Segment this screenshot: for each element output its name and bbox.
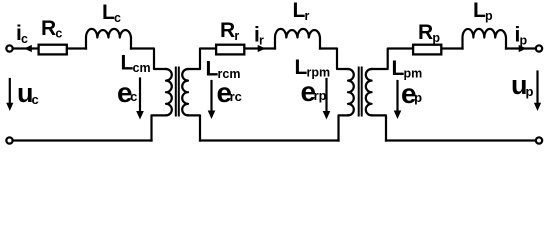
arrowhead i_c (left) — [24, 45, 32, 52]
core T1 — [175, 68, 177, 116]
svg-text:Lr: Lr — [293, 0, 310, 23]
inductor L_p — [463, 29, 507, 49]
svg-text:ec: ec — [117, 77, 137, 108]
inductor L_c — [86, 29, 131, 49]
winding L_rcm — [182, 69, 188, 115]
arrowhead u_p — [534, 103, 541, 111]
terminal bottom-left — [6, 137, 12, 143]
voltage arrow e_rp — [325, 79, 327, 111]
resistor R_p — [413, 45, 441, 55]
svg-text:up: up — [511, 70, 534, 100]
winding L_cm — [166, 69, 172, 115]
voltage arrow e_rc — [210, 81, 212, 111]
resistor R_r — [216, 45, 244, 55]
winding L_rpm — [348, 69, 354, 115]
core T2 — [358, 68, 360, 116]
voltage arrow e_c — [139, 79, 141, 112]
wire L_rpm bottom to rail — [339, 115, 349, 140]
wire L_cm bottom to rail — [152, 115, 167, 140]
svg-text:Lcm: Lcm — [121, 51, 151, 75]
arrowhead i_p (right) — [519, 45, 527, 52]
terminal bottom-right — [536, 137, 542, 143]
terminal top-left — [6, 45, 12, 51]
svg-text:Lc: Lc — [102, 1, 121, 25]
bottom rail loop1 — [14, 139, 152, 141]
svg-text:Rp: Rp — [418, 21, 440, 45]
wire L_rcm bottom to rail — [188, 115, 200, 140]
svg-text:ep: ep — [401, 78, 422, 109]
resistor R_c — [39, 45, 67, 55]
svg-text:ir: ir — [254, 24, 264, 48]
wire L_r to T2 riser — [320, 49, 348, 70]
arrowhead e_rp — [323, 111, 331, 120]
svg-text:uc: uc — [17, 78, 39, 108]
wire L_rcm top to rail — [188, 49, 215, 70]
arrowhead e_c — [136, 111, 144, 120]
svg-text:ic: ic — [16, 22, 28, 46]
wire L_pm bottom to rail — [372, 115, 386, 140]
wire L_c to T1 riser — [131, 49, 166, 70]
voltage arrow u_p — [536, 72, 538, 104]
inductor L_r — [275, 29, 320, 49]
svg-text:Rc: Rc — [41, 17, 62, 41]
svg-text:Rr: Rr — [220, 19, 239, 43]
wire R_r to L_r — [246, 47, 276, 49]
bottom rail loop3 — [386, 139, 535, 141]
voltage arrow e_p — [396, 81, 398, 111]
svg-text:erc: erc — [217, 77, 242, 108]
bottom rail loop2 — [200, 139, 339, 141]
arrowhead u_c — [6, 103, 13, 111]
svg-text:Lp: Lp — [473, 0, 493, 23]
wire R_c to L_c — [68, 47, 86, 49]
wire L_pm top to rail — [372, 49, 412, 70]
terminal top-right — [536, 45, 542, 51]
wire terminal to R_c — [14, 47, 38, 49]
wire L_p to terminal — [506, 47, 535, 49]
voltage arrow u_c — [9, 79, 11, 103]
arrowhead e_p — [394, 111, 402, 120]
arrowhead e_rc — [208, 111, 216, 120]
winding L_pm — [366, 69, 372, 115]
svg-text:ip: ip — [515, 24, 528, 48]
arrowhead i_r (right) — [258, 45, 266, 52]
wire R_p to L_p — [443, 47, 463, 49]
svg-text:erp: erp — [301, 76, 327, 107]
